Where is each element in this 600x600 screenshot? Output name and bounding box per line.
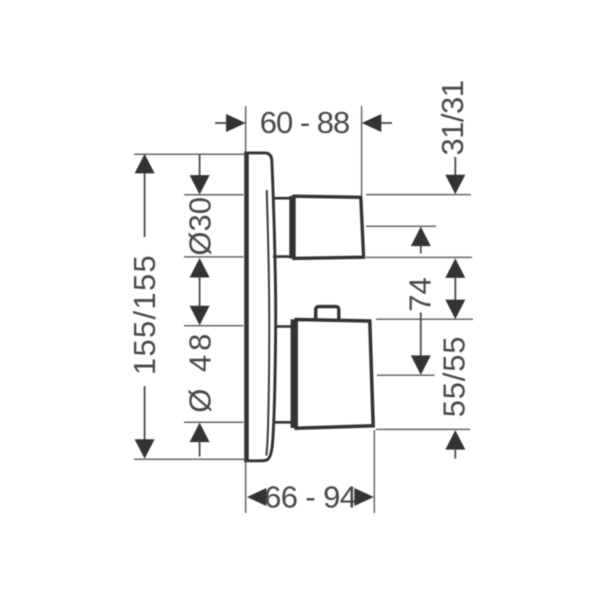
- dimension d30 line above: [199, 155, 201, 179]
- label 31/31: [435, 80, 470, 155]
- dimension 66-94 left arrow: [247, 488, 267, 506]
- upper knob stem: [273, 198, 290, 256]
- svg-text:55/55: 55/55: [436, 336, 471, 418]
- extension line 60-88 right: [361, 106, 363, 196]
- extension line knob bottom right: [366, 256, 472, 258]
- svg-text:31/31: 31/31: [435, 80, 470, 155]
- extension line 74 top: [366, 225, 436, 227]
- extension line 155/155 top: [134, 153, 245, 155]
- dimension d48 tail below: [199, 441, 201, 457]
- dimension d30 arrow down: [190, 175, 210, 195]
- double arrow shaft: [454, 277, 456, 301]
- extension line 66-94 right: [373, 430, 375, 513]
- upper knob body: [294, 196, 364, 258]
- dimension 155/155 line upper segment: [144, 157, 146, 237]
- svg-text:74: 74: [402, 277, 437, 311]
- extension line d30 top left: [184, 194, 244, 196]
- dimension 60-88 left tail: [215, 122, 227, 124]
- double arrow down: [445, 300, 465, 320]
- dimension d30 arrow up: [190, 258, 210, 278]
- label d48: [183, 330, 218, 413]
- extension line 74 bottom: [377, 374, 435, 376]
- dimension 74 arrow up: [411, 227, 431, 247]
- label 60-88: [260, 105, 350, 140]
- extension line d30 bottom left: [184, 256, 244, 258]
- extension line d48 bottom left: [184, 421, 244, 423]
- dimension d48 arrow down: [190, 306, 210, 326]
- label 66-94: [264, 480, 357, 515]
- dimension 31/31 line: [454, 157, 456, 178]
- lower knob stem: [274, 327, 293, 423]
- svg-text:66 - 94: 66 - 94: [264, 480, 357, 515]
- dimension 74 upper tail: [420, 246, 422, 253]
- label 55/55: [436, 336, 471, 418]
- escutcheon plate back edge: [244, 152, 249, 462]
- dimension 31/31 arrow down: [445, 175, 465, 195]
- extension line 155/155 bottom: [134, 458, 245, 460]
- dimension 74 line: [420, 313, 422, 357]
- dimension 55/55 tail: [454, 448, 456, 459]
- label d30: [183, 197, 218, 256]
- dimension 155/155 arrow up: [135, 154, 155, 174]
- dimension 155/155 line lower segment: [144, 386, 146, 441]
- extension line lower knob top right: [376, 318, 473, 320]
- dimension 60-88 right arrow: [362, 114, 382, 132]
- extension line d48 top left: [184, 325, 244, 327]
- dimension 55/55 arrow up: [445, 430, 465, 450]
- label 155/155: [127, 254, 162, 375]
- upper knob back flange: [289, 196, 294, 259]
- dimension d48 arrow up: [190, 423, 210, 443]
- dimension 74 arrow down: [411, 355, 431, 375]
- lower knob body: [296, 320, 373, 429]
- label 74: [402, 277, 437, 311]
- dimension 66-94 right arrow: [354, 488, 374, 506]
- lower knob tab: [316, 307, 339, 320]
- svg-text:Ø 48: Ø 48: [183, 330, 218, 413]
- svg-text:155/155: 155/155: [127, 254, 162, 375]
- wall line / left extension line: [245, 106, 247, 513]
- escutcheon plate outline: [244, 153, 275, 461]
- dimension 155/155 arrow down: [135, 439, 155, 459]
- lower knob back flange: [291, 319, 297, 428]
- extension line lower knob bottom right: [376, 428, 470, 430]
- svg-text:60 - 88: 60 - 88: [260, 105, 350, 140]
- dimension 60-88 left arrow: [226, 114, 246, 132]
- dimension 60-88 right tail: [381, 122, 392, 124]
- svg-text:Ø30: Ø30: [183, 197, 218, 256]
- dimension line between d30 and d48: [199, 277, 201, 307]
- extension line knob top right (31/31): [366, 194, 471, 196]
- double arrow up: [445, 258, 465, 278]
